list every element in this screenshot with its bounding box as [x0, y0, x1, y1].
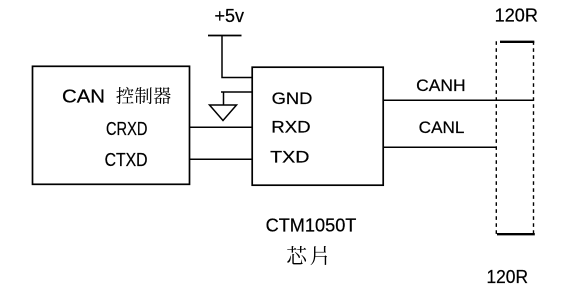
- svg-text:+5v: +5v: [215, 6, 245, 26]
- resistor 120R termination, dashed body right edge: [533, 41, 535, 234]
- svg-text:CAN: CAN: [62, 87, 105, 107]
- wire GND pin to ground symbol: [221, 91, 253, 93]
- wire ground stub: [223, 92, 225, 105]
- wire CRXD to RXD: [190, 126, 253, 128]
- label CAN 控制器: [62, 87, 171, 107]
- svg-text:CTM1050T: CTM1050T: [266, 215, 357, 235]
- wire CANL: [383, 146, 496, 148]
- label 芯片: [287, 246, 327, 265]
- svg-text:CTXD: CTXD: [105, 150, 148, 170]
- svg-text:CANL: CANL: [419, 118, 465, 137]
- svg-text:120R: 120R: [495, 6, 538, 26]
- CTM1050T chip box U1: [252, 67, 383, 185]
- power +5v rail bar: [208, 35, 242, 37]
- CAN controller box: [33, 66, 190, 184]
- wire CANH: [383, 99, 534, 101]
- wire CTXD to TXD: [190, 158, 253, 160]
- svg-text:TXD: TXD: [270, 148, 309, 167]
- svg-text:GND: GND: [272, 89, 313, 108]
- svg-text:RXD: RXD: [271, 118, 310, 137]
- resistor 120R termination, dashed body left edge: [495, 41, 497, 234]
- resistor body top edge: [500, 41, 534, 43]
- svg-text:CANH: CANH: [416, 76, 465, 95]
- wire +5v rail down to chip: [222, 36, 253, 78]
- resistor body bottom edge: [497, 233, 535, 235]
- ground symbol (open triangle): [210, 105, 237, 121]
- svg-text:120R: 120R: [487, 267, 529, 287]
- svg-text:CRXD: CRXD: [106, 119, 147, 139]
